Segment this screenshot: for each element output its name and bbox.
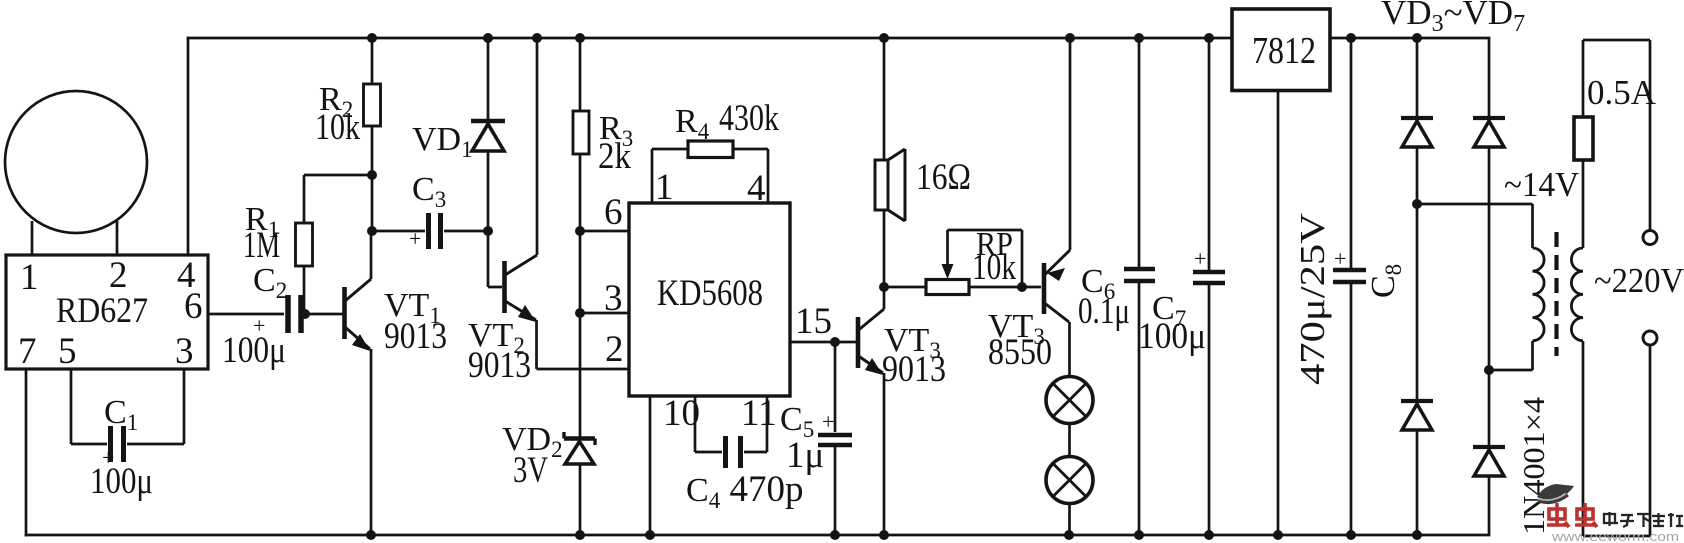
svg-text:2k: 2k <box>598 136 631 177</box>
wire 7812 ground lead <box>1277 91 1280 536</box>
svg-text:6: 6 <box>604 192 623 233</box>
svg-text:0.5A: 0.5A <box>1587 73 1657 112</box>
wire collector node to C3 <box>372 230 425 233</box>
svg-text:15: 15 <box>795 301 832 342</box>
terminal upper 220V <box>1643 231 1657 245</box>
diode VD bridge left top <box>1401 38 1433 204</box>
resistor R1 1M <box>296 223 313 266</box>
resistor R2 10k <box>364 84 381 126</box>
wire RD627 pin5 down <box>70 369 73 444</box>
wire node pin6 down to pin3 node <box>579 231 582 313</box>
wire pin3 node down to VD2 <box>579 313 582 437</box>
wire C5 top lead <box>834 342 837 432</box>
capacitor C2 100u <box>288 295 301 333</box>
node VD1/C3/VT2 base <box>483 226 493 236</box>
svg-text:470μ/25V: 470μ/25V <box>1293 213 1332 385</box>
wire pin15 to VT3 base <box>790 341 856 344</box>
node bridge left mid <box>1412 199 1422 209</box>
fuse 0.5A <box>1574 117 1593 160</box>
wire mic left lead <box>31 221 34 256</box>
watermark chong chars <box>1547 503 1597 527</box>
node pin3 <box>575 308 585 318</box>
diode VD1 <box>471 38 505 231</box>
junction dots bottom rail <box>366 530 1422 540</box>
svg-text:3: 3 <box>175 331 194 372</box>
diode VD bridge right top <box>1473 38 1505 370</box>
wire C4 to pin11 stub <box>744 451 767 454</box>
capacitor C3 <box>429 213 441 249</box>
wire RD627 pin7 to bottom rail <box>25 369 28 535</box>
resistor R4 430k <box>688 141 733 158</box>
wire RP to wiper node <box>969 286 1022 289</box>
watermark logo hat <box>1537 484 1574 500</box>
capacitor C7 100u <box>1208 38 1211 270</box>
svg-text:4: 4 <box>747 168 766 209</box>
wire lamp L2 to bottom rail <box>1068 504 1071 536</box>
svg-text:16Ω: 16Ω <box>916 157 971 198</box>
wire secondary bottom to bridge right mid <box>1531 341 1534 370</box>
svg-text:9013: 9013 <box>384 316 447 357</box>
capacitor C6 0.1u <box>1138 38 1141 267</box>
wire R4 to pin4 stub <box>733 148 768 151</box>
speaker 16ohm <box>875 149 905 221</box>
svg-text:RD627: RD627 <box>56 290 148 330</box>
svg-text:5: 5 <box>58 331 77 372</box>
wire top rail left <box>188 37 1232 40</box>
wire node down to VT2 base <box>487 231 490 287</box>
svg-text:6: 6 <box>184 286 203 327</box>
node pin6 <box>575 226 585 236</box>
svg-text:9013: 9013 <box>882 349 946 390</box>
junction dots top rail <box>367 33 1422 43</box>
wire lower terminal loop to primary bottom <box>1649 345 1652 536</box>
svg-text:+: + <box>1194 246 1206 271</box>
node VT1 collector / C3 <box>367 226 377 236</box>
lamp L1 <box>1046 377 1093 424</box>
svg-text:100μ: 100μ <box>222 330 286 371</box>
svg-text:1: 1 <box>655 167 674 208</box>
svg-text:8550: 8550 <box>988 332 1052 373</box>
svg-text:~220V: ~220V <box>1594 261 1684 300</box>
diode VD bridge left bottom <box>1401 204 1433 535</box>
wire fuse to upper terminal <box>1583 39 1650 42</box>
terminal lower 220V <box>1643 331 1657 345</box>
transistor VT1 9013 <box>345 231 372 535</box>
transistor VT3 8550 <box>1044 38 1070 377</box>
transistor VT3 9013 <box>858 287 884 535</box>
wire between lamps <box>1068 424 1071 458</box>
wire IC ground lead to bottom rail <box>649 396 652 535</box>
svg-text:11: 11 <box>741 393 777 434</box>
svg-text:2: 2 <box>605 329 624 370</box>
wire top rail right of 7812 <box>1330 37 1489 40</box>
svg-text:+: + <box>822 409 834 434</box>
wire bridge left mid to transformer secondary <box>1417 203 1533 206</box>
IC KD5608 <box>629 203 790 396</box>
wire RD627 pin3 down <box>183 369 186 444</box>
node VT3 collector / speaker <box>879 282 889 292</box>
wire VT2 emitter to KD5608 pin2 <box>537 368 630 371</box>
svg-text:10k: 10k <box>972 247 1016 288</box>
node bridge right mid <box>1484 365 1494 375</box>
zener diode VD2 3V <box>564 432 595 535</box>
transformer T secondary winding <box>1533 248 1545 341</box>
svg-text:7: 7 <box>18 331 37 372</box>
wire bottom rail <box>26 534 1489 537</box>
svg-text:1: 1 <box>20 257 39 298</box>
lamp L2 <box>1046 457 1093 504</box>
wire C1 right <box>127 443 184 446</box>
svg-text:3: 3 <box>604 278 623 319</box>
node R1/R2 <box>367 170 377 180</box>
transformer core <box>1554 232 1558 356</box>
svg-text:VD3~VD7: VD3~VD7 <box>1381 0 1525 37</box>
node RP wiper <box>1017 282 1027 292</box>
capacitor C1 100u <box>111 426 124 462</box>
wire node to VT3 8550 base <box>1022 286 1041 289</box>
wire speaker to collector node <box>883 210 886 287</box>
svg-text:KD5608: KD5608 <box>657 273 763 314</box>
wire RD627 pin4 to top rail <box>187 38 190 255</box>
svg-text:100μ: 100μ <box>1138 316 1206 357</box>
capacitor C5 1u <box>818 435 852 445</box>
svg-text:0.1μ: 0.1μ <box>1078 291 1130 332</box>
wire top rail to speaker <box>883 38 886 160</box>
svg-text:430k: 430k <box>719 98 779 139</box>
module RD627 <box>6 255 208 369</box>
svg-text:1μ: 1μ <box>786 435 824 476</box>
potentiometer RP 10k <box>926 280 969 295</box>
svg-text:10k: 10k <box>315 107 360 148</box>
svg-text:9013: 9013 <box>468 345 531 386</box>
wire C3 to VD1 node <box>444 230 488 233</box>
wire C1 left <box>71 443 107 446</box>
wire collector node to RP <box>884 286 926 289</box>
watermark site name <box>1604 512 1683 527</box>
svg-text:~14V: ~14V <box>1504 165 1579 204</box>
node C5 junction <box>830 337 840 347</box>
svg-text:3V: 3V <box>513 450 548 491</box>
node base of VT1 <box>300 309 310 319</box>
resistor R3 2k <box>573 111 589 154</box>
svg-text:www.eeworm.com: www.eeworm.com <box>1551 529 1679 543</box>
wire pin3 to KD5608 <box>580 312 629 315</box>
svg-text:+: + <box>409 226 421 251</box>
wire C2 to VT1 base <box>304 313 343 316</box>
svg-text:1N4001×4: 1N4001×4 <box>1516 396 1551 535</box>
microphone/antenna head of RD627 module <box>5 91 147 233</box>
svg-text:100μ: 100μ <box>90 461 153 502</box>
wire pin1 stub <box>651 149 654 203</box>
wire pin10 stub <box>694 396 697 452</box>
regulator 7812 <box>1232 9 1330 91</box>
capacitor C8 470u/25V <box>1350 38 1353 268</box>
wire primary top to fuse <box>1582 160 1585 248</box>
transformer T primary winding <box>1571 248 1583 341</box>
transistor VT2 9013 <box>505 38 538 369</box>
wire RD627 pin6 to C2 <box>208 313 284 316</box>
wire pin6 to KD5608 <box>580 230 629 233</box>
svg-text:7812: 7812 <box>1252 30 1316 72</box>
svg-text:+: + <box>1334 246 1346 271</box>
diode VD bridge right bottom <box>1473 370 1505 535</box>
wire mic right lead <box>116 221 119 256</box>
svg-text:1M: 1M <box>243 225 280 266</box>
wire R1 top to collector node <box>304 174 372 177</box>
capacitor C4 470p <box>726 436 741 468</box>
